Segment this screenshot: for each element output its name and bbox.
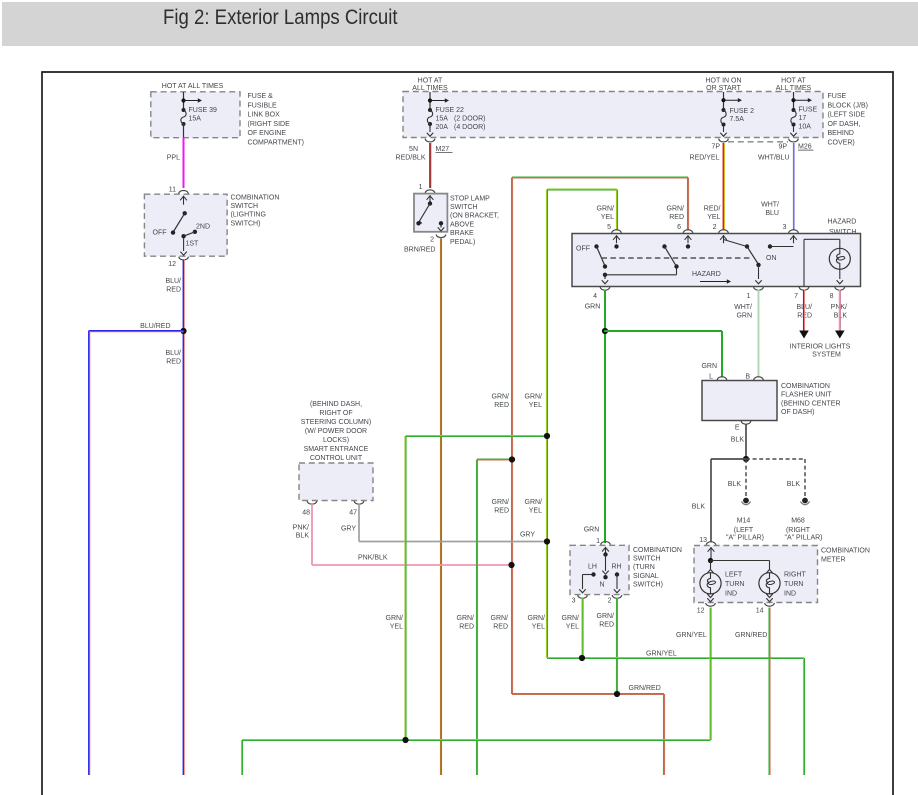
- svg-text:GRN/: GRN/: [492, 394, 510, 401]
- pin 4 hazard: [600, 287, 610, 290]
- left turn indicator lamp: [710, 561, 712, 570]
- arrow into pin 11: [180, 196, 187, 205]
- svg-text:OR START: OR START: [706, 85, 741, 92]
- pin 2 hazard: [719, 230, 729, 233]
- svg-text:RED: RED: [166, 358, 181, 365]
- wire BLK dashed to M14: [745, 459, 747, 497]
- junction GRN/YEL y740: [402, 737, 408, 743]
- svg-text:COMBINATION: COMBINATION: [231, 195, 280, 202]
- svg-text:RED: RED: [494, 508, 509, 515]
- svg-text:GRN/: GRN/: [525, 394, 543, 401]
- svg-text:FUSE 39: FUSE 39: [189, 107, 218, 114]
- svg-text:OF DASH): OF DASH): [781, 409, 814, 416]
- combination switch (lighting switch) box: [144, 194, 227, 256]
- branch arrow at fuse 22: [428, 98, 432, 102]
- svg-text:3: 3: [783, 224, 787, 231]
- wire WHT/GRN: [758, 290, 760, 378]
- arrow fuse 2 to connector: [723, 126, 725, 132]
- svg-text:YEL: YEL: [529, 508, 542, 515]
- svg-text:FUSE 22: FUSE 22: [436, 107, 465, 114]
- svg-text:(LEFT SIDE: (LEFT SIDE: [828, 112, 866, 119]
- svg-text:CONTROL UNIT: CONTROL UNIT: [310, 455, 363, 462]
- svg-text:YEL: YEL: [532, 624, 545, 631]
- junction BLK: [743, 456, 749, 462]
- svg-text:N: N: [599, 582, 604, 589]
- svg-text:YEL: YEL: [566, 624, 579, 631]
- arrow to pin 4: [604, 277, 606, 280]
- wire GRY horizontal: [359, 541, 547, 543]
- svg-text:BLK: BLK: [787, 481, 801, 488]
- svg-text:YEL: YEL: [390, 624, 403, 631]
- wire GRN horizontal to flasher: [604, 330, 722, 332]
- hazard blade 2: [662, 244, 666, 248]
- svg-text:BLU: BLU: [765, 210, 779, 217]
- svg-text:5: 5: [607, 224, 611, 231]
- svg-text:RED/YEL: RED/YEL: [690, 155, 720, 162]
- svg-text:48: 48: [302, 510, 310, 517]
- svg-text:ON: ON: [766, 255, 777, 262]
- hazard pole riser: [603, 273, 607, 277]
- junction GRN/YEL y658: [579, 655, 585, 661]
- hazard contact under pin 5: [614, 244, 618, 248]
- fuse & fusible link box: [151, 92, 240, 138]
- svg-text:PNK/BLK: PNK/BLK: [358, 555, 388, 562]
- svg-text:HOT AT ALL TIMES: HOT AT ALL TIMES: [162, 83, 224, 90]
- wire GRN/YEL from pin 3: [582, 598, 583, 658]
- smart entrance control unit box: [299, 463, 373, 501]
- junction GRY to GRN/YEL wire: [544, 538, 550, 544]
- wire GRN/RED riser to pin 6: [512, 178, 513, 695]
- svg-text:OF DASH,: OF DASH,: [828, 121, 861, 128]
- svg-text:GRN/: GRN/: [386, 615, 404, 622]
- stop lamp switch box: [414, 194, 447, 232]
- svg-text:M27: M27: [436, 146, 450, 153]
- wire fuse 39 feed: [183, 92, 185, 110]
- svg-text:1: 1: [419, 184, 423, 191]
- svg-text:FLASHER UNIT: FLASHER UNIT: [781, 392, 832, 399]
- svg-text:"A" PILLAR): "A" PILLAR): [784, 535, 822, 542]
- wire GRN/RED from pin 2: [617, 598, 618, 694]
- svg-text:(ON BRACKET,: (ON BRACKET,: [450, 213, 499, 220]
- svg-text:BLU/: BLU/: [165, 278, 181, 285]
- connector 7P: [719, 139, 729, 142]
- pin E flasher: [741, 421, 751, 424]
- fuse F17 10A: [791, 108, 796, 127]
- connector 5N / M27: [425, 139, 435, 142]
- svg-text:RH: RH: [611, 564, 621, 571]
- stop lamp switch output contact: [439, 221, 443, 225]
- title bar: [2, 2, 918, 46]
- connector bridge 7P-9P: [728, 141, 788, 143]
- turn signal common contact: [603, 552, 607, 556]
- svg-text:3: 3: [572, 598, 576, 605]
- svg-text:WHT/BLU: WHT/BLU: [758, 155, 790, 162]
- svg-text:20A: 20A: [436, 124, 449, 131]
- wire GRY from pin 47: [358, 504, 360, 542]
- svg-text:WHT/: WHT/: [734, 304, 752, 311]
- hazard blade 1: [594, 244, 598, 248]
- wire PPL: [183, 138, 185, 188]
- svg-text:2ND: 2ND: [196, 224, 210, 231]
- svg-text:SWITCH: SWITCH: [450, 204, 478, 211]
- wire BRN/RED: [441, 239, 442, 776]
- svg-text:8: 8: [830, 293, 834, 300]
- svg-text:10A: 10A: [799, 124, 812, 131]
- wire PNK/BLK to interior lights: [839, 290, 840, 332]
- junction GRN/YEL y436: [544, 433, 550, 439]
- svg-text:(BEHIND CENTER: (BEHIND CENTER: [781, 400, 841, 407]
- stop lamp switch blade: [420, 204, 431, 222]
- svg-text:HAZARD: HAZARD: [828, 219, 857, 226]
- combination meter box: [694, 546, 818, 603]
- svg-text:GRN/: GRN/: [562, 615, 580, 622]
- svg-text:FUSIBLE: FUSIBLE: [248, 102, 278, 109]
- wire GRN/YEL horizontal y658: [547, 658, 804, 659]
- lighting switch 1ST/2ND contact: [181, 234, 185, 238]
- svg-text:COMPARTMENT): COMPARTMENT): [248, 140, 305, 147]
- svg-text:RED: RED: [669, 214, 684, 221]
- wire GRN/RED drop x477: [477, 460, 478, 776]
- svg-text:GRN/: GRN/: [457, 615, 475, 622]
- pin 14 combination meter: [765, 603, 775, 606]
- svg-text:BLOCK (J/B): BLOCK (J/B): [828, 102, 868, 109]
- wire GRN from pin 4: [604, 290, 606, 544]
- svg-text:RED: RED: [599, 622, 614, 629]
- svg-text:BLK: BLK: [692, 504, 706, 511]
- wire WHT/BLU: [793, 143, 794, 231]
- junction GRN: [602, 328, 608, 334]
- svg-text:1: 1: [596, 538, 600, 545]
- svg-text:FUSE &: FUSE &: [248, 93, 274, 100]
- hazard blade 3: [747, 247, 759, 265]
- svg-text:TURN: TURN: [725, 581, 744, 588]
- svg-text:14: 14: [756, 608, 764, 615]
- svg-text:GRY: GRY: [520, 532, 535, 539]
- svg-text:BRN/RED: BRN/RED: [404, 247, 436, 254]
- svg-text:WHT/: WHT/: [761, 202, 779, 209]
- right turn indicator lamp: [766, 570, 772, 574]
- pin 7 hazard: [799, 287, 809, 290]
- svg-text:FUSE: FUSE: [799, 107, 818, 114]
- svg-text:IND: IND: [725, 591, 737, 598]
- ground M68: [800, 498, 809, 505]
- wire BLU/RED from pin 12: [183, 260, 184, 776]
- svg-text:SYSTEM: SYSTEM: [812, 352, 841, 359]
- pin 2 turn signal switch: [612, 595, 622, 598]
- svg-text:OF ENGINE: OF ENGINE: [248, 130, 287, 137]
- meter crossover wire: [711, 560, 770, 562]
- svg-text:(RIGHT: (RIGHT: [786, 527, 811, 534]
- svg-text:7: 7: [794, 293, 798, 300]
- svg-text:HOT IN ON: HOT IN ON: [705, 77, 741, 84]
- fuse block (J/B) box: [403, 92, 823, 138]
- svg-text:LINK BOX: LINK BOX: [248, 112, 281, 119]
- svg-text:GRN/: GRN/: [597, 206, 615, 213]
- svg-text:7.5A: 7.5A: [730, 116, 745, 123]
- svg-text:SWITCH: SWITCH: [231, 203, 259, 210]
- wire fuse 22 feed: [429, 92, 431, 110]
- svg-text:RIGHT OF: RIGHT OF: [319, 410, 352, 417]
- LH contact to pin 3: [591, 572, 595, 576]
- arrow into pin 1: [427, 195, 434, 203]
- wire BLK to combination meter: [711, 458, 746, 460]
- svg-text:(TURN: (TURN: [633, 564, 655, 571]
- wire BLU/RED left drop: [89, 331, 90, 775]
- junction BLU/RED: [180, 328, 186, 334]
- wire fuse 2 feed: [723, 92, 725, 110]
- junction GRN/RED y459: [509, 456, 515, 462]
- hazard mechanical link: [602, 257, 752, 259]
- svg-text:(LIGHTING: (LIGHTING: [231, 212, 266, 219]
- arrow into pin 13: [708, 547, 715, 555]
- wire GRN/RED from meter pin 14: [769, 608, 770, 776]
- svg-text:(2 DOOR): (2 DOOR): [454, 115, 486, 122]
- svg-text:"A" PILLAR): "A" PILLAR): [726, 535, 764, 542]
- svg-text:HAZARD: HAZARD: [692, 271, 721, 278]
- fuse F2 7.5A: [721, 108, 726, 127]
- svg-text:RED: RED: [494, 402, 509, 409]
- svg-text:BLK: BLK: [296, 533, 310, 540]
- svg-text:(W/ POWER DOOR: (W/ POWER DOOR: [305, 428, 367, 435]
- svg-text:6: 6: [677, 224, 681, 231]
- svg-text:SWITCH: SWITCH: [633, 556, 661, 563]
- wire BLU/RED horizontal: [89, 331, 184, 332]
- hazard blade output to pin 1: [758, 265, 760, 279]
- ground M14: [741, 498, 750, 505]
- svg-text:COMBINATION: COMBINATION: [633, 547, 682, 554]
- svg-text:ABOVE: ABOVE: [450, 221, 474, 228]
- svg-text:1: 1: [747, 293, 751, 300]
- svg-text:SMART ENTRANCE: SMART ENTRANCE: [304, 446, 369, 453]
- junction PNK/BLK to GRN/RED wire: [508, 562, 514, 568]
- hazard indicator lamp: [829, 248, 850, 269]
- svg-text:GRN/: GRN/: [525, 499, 543, 506]
- svg-text:M26: M26: [798, 144, 812, 151]
- svg-text:YEL: YEL: [529, 402, 542, 409]
- wire BLK dashed to M68: [746, 458, 805, 460]
- svg-text:GRN/: GRN/: [667, 206, 685, 213]
- pin 3 hazard: [789, 230, 799, 233]
- svg-text:GRN/RED: GRN/RED: [735, 632, 767, 639]
- svg-text:SIGNAL: SIGNAL: [633, 573, 659, 580]
- RH contact to pin 2: [615, 572, 619, 576]
- meter feed wire: [710, 555, 712, 561]
- svg-text:RED/BLK: RED/BLK: [396, 155, 426, 162]
- svg-text:2: 2: [430, 237, 434, 244]
- svg-text:GRN/YEL: GRN/YEL: [676, 632, 707, 639]
- wire fuse 17 feed: [793, 92, 795, 110]
- svg-text:B: B: [745, 373, 750, 380]
- svg-text:11: 11: [169, 187, 176, 194]
- arrow fuse 22 to connector: [429, 126, 431, 132]
- svg-text:RED/: RED/: [704, 206, 721, 213]
- svg-text:12: 12: [697, 608, 705, 615]
- svg-text:RIGHT: RIGHT: [784, 572, 807, 579]
- svg-text:2: 2: [608, 598, 612, 605]
- junction GRN/RED y694: [614, 691, 620, 697]
- svg-text:GRN: GRN: [736, 312, 752, 319]
- svg-text:47: 47: [349, 510, 357, 517]
- pin 6 hazard: [683, 230, 693, 233]
- svg-text:PEDAL): PEDAL): [450, 239, 475, 246]
- svg-text:17: 17: [799, 115, 807, 122]
- pin 47: [354, 501, 364, 504]
- svg-text:COVER): COVER): [828, 140, 855, 147]
- svg-text:(4 DOOR): (4 DOOR): [454, 124, 486, 131]
- svg-text:4: 4: [593, 293, 597, 300]
- svg-text:1ST: 1ST: [186, 241, 200, 248]
- svg-text:BEHIND: BEHIND: [828, 130, 854, 137]
- wire GRN/RED drop x664: [664, 694, 665, 775]
- wire BLK from pin E: [745, 424, 747, 459]
- svg-text:HOT AT: HOT AT: [418, 77, 443, 84]
- wire PNK/BLK from pin 48: [311, 504, 313, 565]
- wire GRN/YEL horizontal y436: [406, 436, 548, 437]
- hazard switch box: [572, 234, 861, 287]
- pin 12: [179, 257, 189, 260]
- svg-text:5N: 5N: [409, 146, 418, 153]
- pin 12 combination meter: [706, 603, 716, 606]
- svg-text:12: 12: [168, 261, 176, 268]
- wire GRN/RED horizontal y459: [477, 459, 512, 460]
- svg-text:GRN: GRN: [701, 363, 717, 370]
- hazard lamp wire: [803, 239, 805, 286]
- svg-text:FUSE 2: FUSE 2: [730, 108, 755, 115]
- svg-text:PNK/: PNK/: [293, 525, 309, 532]
- wire RED/BLK: [430, 143, 431, 188]
- arrow into pin 1: [602, 547, 609, 555]
- hazard pin3 branch: [768, 244, 772, 248]
- wire RED/YEL: [723, 143, 724, 231]
- svg-text:(LEFT: (LEFT: [734, 527, 754, 534]
- pin 5 hazard: [612, 230, 622, 233]
- svg-text:ALL TIMES: ALL TIMES: [776, 85, 812, 92]
- svg-text:RED: RED: [166, 286, 181, 293]
- wire GRN/YEL drop x804: [804, 658, 805, 775]
- svg-text:OFF: OFF: [576, 246, 590, 253]
- svg-text:BRAKE: BRAKE: [450, 230, 474, 237]
- arrow fuse 17 to connector: [793, 126, 795, 132]
- svg-text:GRN: GRN: [584, 527, 600, 534]
- connector 9P / M26: [789, 139, 799, 142]
- fuse F39 15A: [181, 108, 186, 126]
- svg-text:(BEHIND DASH,: (BEHIND DASH,: [310, 401, 362, 408]
- svg-text:9P: 9P: [778, 144, 787, 151]
- svg-text:YEL: YEL: [707, 214, 720, 221]
- combination flasher unit box: [702, 381, 777, 421]
- svg-text:TURN: TURN: [784, 581, 803, 588]
- svg-text:FUSE: FUSE: [828, 93, 847, 100]
- svg-text:GRN: GRN: [585, 304, 601, 311]
- svg-text:GRN/RED: GRN/RED: [629, 685, 661, 692]
- turn signal neutral arm: [605, 555, 607, 572]
- svg-text:HOT AT: HOT AT: [781, 77, 806, 84]
- svg-text:LOCKS): LOCKS): [323, 437, 349, 444]
- hazard contact under pin 6: [686, 244, 690, 248]
- stop lamp switch contact: [428, 201, 432, 205]
- combination switch (turn signal) box: [570, 545, 629, 594]
- branch arrow at fuse 17: [791, 98, 795, 102]
- wire GRN/YEL drop x405: [405, 436, 406, 740]
- svg-text:LH: LH: [588, 564, 597, 571]
- wire GRN/YEL from meter pin 12: [710, 608, 711, 741]
- lighting switch blade to OFF: [174, 213, 185, 231]
- wire BLU/RED to interior lights: [804, 290, 805, 332]
- svg-text:GRY: GRY: [341, 526, 356, 533]
- svg-text:STOP LAMP: STOP LAMP: [450, 195, 490, 202]
- pin 1 hazard: [754, 287, 764, 290]
- svg-text:(RIGHT SIDE: (RIGHT SIDE: [248, 121, 291, 128]
- svg-text:GRN/: GRN/: [492, 499, 510, 506]
- svg-text:YEL: YEL: [601, 214, 614, 221]
- svg-text:LEFT: LEFT: [725, 572, 743, 579]
- wire GRN/YEL horizontal y740: [242, 740, 711, 741]
- svg-text:BLU/: BLU/: [165, 350, 181, 357]
- svg-text:BLK: BLK: [728, 481, 742, 488]
- svg-text:PPL: PPL: [167, 155, 180, 162]
- arrow to pin 2: [440, 225, 442, 228]
- svg-text:E: E: [735, 425, 740, 432]
- svg-text:SWITCH): SWITCH): [231, 220, 261, 227]
- fuse F22 15A/20A: [427, 108, 432, 126]
- pin 8 hazard: [835, 287, 845, 290]
- junction meter feed: [708, 558, 713, 563]
- svg-text:IND: IND: [784, 591, 796, 598]
- svg-text:GRN/: GRN/: [491, 615, 509, 622]
- svg-text:BLK: BLK: [731, 437, 745, 444]
- pin 3 turn signal switch: [578, 595, 588, 598]
- svg-text:M14: M14: [737, 518, 751, 525]
- svg-text:2: 2: [713, 224, 717, 231]
- arrow to pin 12: [183, 238, 185, 251]
- svg-text:M68: M68: [791, 518, 805, 525]
- svg-text:GRN/YEL: GRN/YEL: [646, 651, 677, 658]
- svg-text:7P: 7P: [711, 144, 720, 151]
- svg-text:GRN/: GRN/: [597, 613, 615, 620]
- svg-text:COMBINATION: COMBINATION: [821, 548, 870, 555]
- title text: [163, 5, 398, 30]
- wire GRN/YEL riser to pin 5: [547, 190, 548, 659]
- branch arrow at fuse 39: [181, 98, 185, 102]
- lighting switch common contact: [183, 211, 187, 215]
- branch arrow at fuse 2: [721, 98, 725, 102]
- wire GRN/YEL drop x242: [242, 740, 243, 775]
- svg-text:15A: 15A: [189, 115, 202, 122]
- svg-text:RED: RED: [459, 624, 474, 631]
- svg-text:SWITCH): SWITCH): [633, 581, 663, 588]
- svg-text:OFF: OFF: [153, 230, 167, 237]
- svg-text:BLU/RED: BLU/RED: [140, 323, 170, 330]
- svg-text:15A: 15A: [436, 115, 449, 122]
- svg-text:STEERING COLUMN): STEERING COLUMN): [301, 419, 371, 426]
- svg-text:GRN/: GRN/: [528, 615, 546, 622]
- hazard pin2 branch: [724, 240, 748, 247]
- svg-text:METER: METER: [821, 557, 846, 564]
- svg-text:13: 13: [699, 537, 707, 544]
- wire PNK/BLK horizontal: [312, 564, 512, 566]
- svg-text:INTERIOR LIGHTS: INTERIOR LIGHTS: [790, 344, 851, 351]
- svg-text:RED: RED: [493, 624, 508, 631]
- pin 48: [307, 501, 317, 504]
- svg-text:COMBINATION: COMBINATION: [781, 383, 830, 390]
- wire GRN/RED horizontal y694: [512, 694, 664, 695]
- svg-text:L: L: [709, 373, 713, 380]
